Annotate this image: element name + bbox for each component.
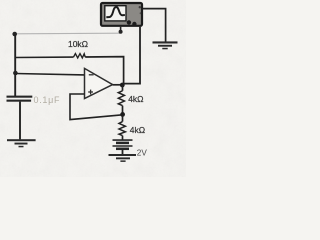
- svg-text:10kΩ: 10kΩ: [68, 39, 88, 49]
- resistor R3 4kΩ zigzag: [119, 122, 125, 136]
- scope probe stub left: [120, 27, 122, 33]
- node probe stub dot: [119, 30, 123, 34]
- battery B1: [113, 140, 133, 149]
- node junction on inverting column: [13, 71, 18, 76]
- resistor R1 10kΩ zigzag: [74, 54, 86, 58]
- wire feedback left segment: [15, 56, 73, 58]
- capacitor C1 plates: [7, 96, 33, 98]
- op-amp U1: [85, 68, 113, 98]
- wire below capacitor: [19, 102, 21, 140]
- wire scope right terminal to ground: [143, 9, 166, 42]
- wire output node to R2: [122, 85, 124, 91]
- wire midpoint to R3: [122, 116, 124, 122]
- wire scope probe vertical: [123, 27, 141, 84]
- node output: [120, 83, 125, 88]
- ground bottom right: [109, 154, 137, 162]
- resistor R2 4kΩ zigzag: [118, 91, 124, 106]
- oscilloscope: [101, 3, 142, 26]
- wire inverting input: [15, 74, 84, 75]
- paper mottle: [0, 0, 186, 177]
- ground top right: [153, 41, 178, 49]
- wire non-inverting input U-path: [70, 94, 123, 120]
- wire R3 to battery: [122, 136, 124, 140]
- svg-text:4kΩ: 4kΩ: [128, 94, 143, 104]
- ground left: [7, 139, 36, 147]
- svg-text:0.1μF: 0.1μF: [34, 95, 61, 105]
- wire battery to ground: [122, 150, 124, 155]
- wire top horizontal (inverting node to scope probe, faint): [15, 32, 120, 35]
- wire op-amp output: [113, 84, 123, 86]
- node midpoint divider: [120, 112, 125, 117]
- wire feedback right segment: [85, 57, 123, 84]
- svg-text:4kΩ: 4kΩ: [130, 125, 145, 135]
- wire R2 to midpoint: [122, 106, 124, 113]
- node start dot top-left: [12, 32, 17, 37]
- svg-text:2V: 2V: [137, 148, 148, 157]
- wire left vertical (inverting node): [14, 34, 16, 97]
